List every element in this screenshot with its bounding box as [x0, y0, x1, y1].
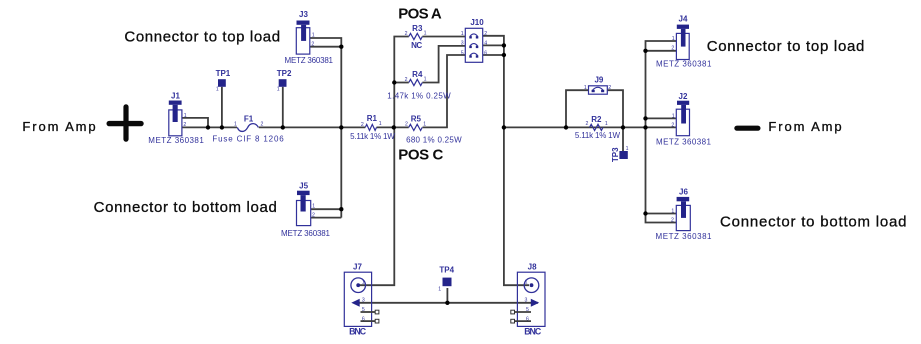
svg-text:2: 2	[361, 122, 364, 128]
node junction J10 pin6	[502, 53, 506, 57]
svg-text:2: 2	[183, 122, 186, 128]
node junction J6 pin1	[643, 211, 647, 215]
BNC J7	[344, 263, 379, 337]
svg-text:J5: J5	[299, 181, 308, 190]
svg-text:4: 4	[484, 41, 487, 47]
svg-text:J4: J4	[679, 15, 688, 24]
svg-text:J1: J1	[171, 92, 180, 101]
resistor R3	[405, 24, 427, 50]
node junction J9 left	[564, 125, 568, 129]
svg-text:F1: F1	[244, 115, 254, 124]
svg-text:R1: R1	[367, 114, 378, 123]
wire main net right	[504, 126, 676, 128]
svg-text:2: 2	[608, 85, 611, 91]
node junction main x J3 vertical	[339, 125, 343, 129]
wire R4 right to J10 pin3	[422, 46, 465, 83]
svg-text:METZ 360381: METZ 360381	[656, 138, 712, 147]
svg-text:1: 1	[362, 280, 365, 286]
wire J9 pin2	[607, 90, 623, 127]
svg-text:J3: J3	[299, 10, 308, 19]
wire fuse to R1	[259, 126, 366, 128]
node junction R1 right	[392, 125, 396, 129]
svg-text:Fuse CIF 8 1206: Fuse CIF 8 1206	[212, 135, 284, 144]
svg-text:J7: J7	[353, 263, 362, 272]
svg-text:R5: R5	[411, 115, 422, 124]
wire J1 pin1 stub	[182, 118, 208, 128]
svg-text:2: 2	[311, 41, 314, 47]
svg-text:R4: R4	[412, 70, 423, 79]
test point TP3	[611, 146, 629, 162]
wire J3 pin1	[310, 38, 342, 47]
svg-text:2: 2	[671, 46, 674, 52]
svg-text:BNC: BNC	[349, 326, 367, 336]
svg-text:TP2: TP2	[277, 69, 292, 78]
wire J9 pin1	[566, 90, 589, 127]
connector J3	[285, 10, 334, 65]
connector J1	[148, 92, 204, 146]
svg-text:J8: J8	[528, 263, 537, 272]
node junction J4 pin2	[643, 49, 647, 53]
svg-text:2: 2	[405, 31, 408, 37]
svg-text:5.11k 1% 1W: 5.11k 1% 1W	[350, 132, 395, 141]
BNC J8	[511, 263, 545, 337]
svg-text:J10: J10	[470, 18, 484, 27]
svg-text:2: 2	[261, 122, 264, 128]
wire TP3 drop	[622, 127, 624, 151]
svg-text:J2: J2	[679, 92, 688, 101]
svg-text:2: 2	[405, 122, 408, 128]
svg-text:Connector to top load: Connector to top load	[707, 38, 865, 55]
svg-text:1: 1	[672, 113, 675, 119]
connector J6	[656, 188, 713, 242]
svg-text:1: 1	[424, 76, 427, 82]
resistor R5	[405, 115, 462, 145]
svg-text:Connector to bottom load: Connector to bottom load	[94, 199, 277, 216]
svg-text:3: 3	[525, 297, 528, 303]
wire J10 pin6 stub	[483, 54, 504, 56]
minus symbol	[734, 126, 760, 131]
node junction J3 pin2	[339, 45, 343, 49]
wire vertical J3 to J5	[340, 47, 342, 218]
wire J4 pin2	[646, 50, 677, 52]
J8 pin6 stub	[515, 320, 532, 322]
svg-text:METZ 360381: METZ 360381	[148, 136, 204, 145]
wire R4 left stub	[394, 82, 409, 84]
svg-text:1: 1	[525, 280, 528, 286]
svg-text:1: 1	[379, 121, 382, 127]
J7 pin6 stub	[361, 320, 376, 322]
svg-text:1.47k 1% 0.25W: 1.47k 1% 0.25W	[387, 92, 451, 101]
svg-text:1: 1	[312, 33, 315, 39]
svg-text:R3: R3	[412, 24, 423, 33]
svg-text:1: 1	[626, 146, 629, 152]
svg-text:TP3: TP3	[611, 147, 620, 162]
connector J2	[656, 92, 712, 147]
wire J10 pin2 and right pillar to J8 pin1	[483, 36, 529, 285]
wire J6 pin1	[646, 213, 677, 215]
svg-text:J6: J6	[679, 188, 688, 197]
node junction main x right pillar	[502, 125, 506, 129]
node junction R4 left	[392, 80, 396, 84]
node junction J10 pin4	[502, 43, 506, 47]
svg-text:POS C: POS C	[398, 146, 443, 163]
svg-text:1: 1	[423, 122, 426, 128]
svg-text:1: 1	[277, 87, 280, 93]
node junction main x J2 pillar	[643, 125, 647, 129]
svg-text:2: 2	[312, 212, 315, 218]
node junction J2 pin1	[643, 116, 647, 120]
svg-text:1: 1	[584, 85, 587, 91]
svg-text:POS A: POS A	[398, 6, 442, 23]
wire J5 pin1	[311, 208, 342, 210]
wire R5 right up to J10 pin5	[423, 55, 466, 127]
svg-text:Connector to bottom load: Connector to bottom load	[720, 213, 907, 230]
test point TP1	[216, 69, 231, 92]
svg-text:1: 1	[461, 31, 464, 37]
svg-text:METZ 360381: METZ 360381	[281, 229, 331, 238]
svg-text:1: 1	[216, 87, 219, 93]
svg-text:J9: J9	[594, 75, 603, 84]
wire J2 pin1	[646, 117, 677, 119]
resistor R4	[387, 70, 451, 100]
node junction J5 pin1	[339, 207, 343, 211]
plus symbol	[107, 104, 144, 141]
svg-text:1: 1	[438, 286, 441, 292]
svg-text:R2: R2	[591, 115, 602, 124]
test point TP4	[438, 265, 454, 292]
svg-text:METZ 360381: METZ 360381	[656, 59, 712, 68]
test point TP2	[277, 69, 292, 92]
resistor R1	[350, 114, 395, 141]
svg-text:2: 2	[671, 122, 674, 128]
svg-text:2: 2	[405, 77, 408, 83]
wire TP1 drop	[221, 87, 223, 128]
wire left pillar J7 pin1 to R3 left	[359, 37, 409, 286]
svg-text:6: 6	[484, 50, 487, 56]
jumper header J10	[461, 18, 488, 62]
wire J3 pin2	[310, 46, 342, 48]
svg-text:1: 1	[312, 204, 315, 210]
svg-text:1: 1	[672, 36, 675, 42]
wire J4 pin1 vertical pillar J6 pin2	[646, 41, 677, 223]
wire J5 pin2	[311, 217, 342, 219]
wire TP2 drop	[282, 87, 284, 128]
svg-text:1: 1	[234, 122, 237, 128]
node junction J1 pin1	[206, 125, 210, 129]
svg-text:680 1% 0.25W: 680 1% 0.25W	[406, 135, 462, 144]
wire R3 right to J10 pin1	[422, 36, 465, 38]
wire R1 to R5	[377, 126, 409, 128]
node junction TP4	[445, 301, 449, 305]
node junction J9 right TP3	[621, 125, 625, 129]
svg-text:3: 3	[461, 41, 464, 47]
svg-text:1: 1	[605, 121, 608, 127]
svg-text:2: 2	[484, 31, 487, 37]
svg-text:NC: NC	[411, 41, 422, 50]
J8 pin3 arrow	[531, 299, 539, 307]
resistor R2	[575, 115, 621, 140]
connector J4	[656, 15, 712, 69]
svg-text:TP1: TP1	[216, 69, 231, 78]
wire BNC pin3 line J7 to J8	[358, 302, 539, 304]
node junction TP1	[220, 125, 224, 129]
J7 pin5 stub	[361, 311, 376, 313]
svg-text:5: 5	[461, 50, 464, 56]
jumper J9	[584, 75, 611, 94]
J8 pin5 stub	[515, 311, 532, 313]
svg-text:METZ 360381: METZ 360381	[656, 232, 713, 241]
svg-text:TP4: TP4	[439, 265, 454, 274]
svg-text:2: 2	[586, 121, 589, 127]
svg-text:1: 1	[424, 30, 427, 36]
wire J10 pin4 stub	[483, 44, 504, 46]
svg-text:1: 1	[184, 113, 187, 119]
wire main net left J1 to fuse	[182, 126, 237, 128]
connector J5	[281, 181, 331, 238]
svg-text:BNC: BNC	[524, 327, 542, 337]
fuse F1	[212, 115, 284, 144]
svg-text:5.11k 1% 1W: 5.11k 1% 1W	[575, 131, 621, 140]
svg-text:3: 3	[362, 297, 365, 303]
svg-text:1: 1	[671, 208, 674, 214]
svg-text:METZ 360381: METZ 360381	[285, 56, 334, 65]
wire TP4 drop	[446, 288, 448, 303]
svg-text:2: 2	[671, 217, 674, 223]
J7 pin3 arrow	[351, 299, 359, 307]
node junction TP2	[281, 125, 285, 129]
svg-text:Connector to top load: Connector to top load	[124, 28, 280, 45]
